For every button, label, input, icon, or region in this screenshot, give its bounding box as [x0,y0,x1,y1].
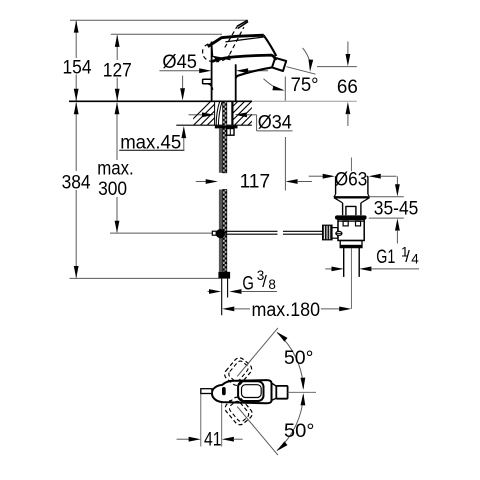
drain tailpipe left [343,248,345,277]
dim 154 arrow down [74,89,79,101]
dim 117 arrow right [206,179,218,184]
dim max45 leader [183,138,185,151]
deck hatching [186,101,300,127]
top view dot upper [229,380,231,382]
mounting hole right edge [231,101,233,125]
dim G3/8 left line [208,291,210,293]
dim 154 arrow up [74,20,79,32]
rod ball joint [216,229,225,238]
dim 384 arrow up [74,102,79,114]
dim G3/8 arrow right [209,289,221,294]
drain rim [334,196,370,198]
top view rod stub [201,389,212,394]
top view centerline [288,391,316,393]
svg-text:Ø34: Ø34 [258,112,292,134]
svg-text:4: 4 [411,251,419,266]
lever left edge [212,42,213,57]
dim G1-1/4 right line [371,268,419,270]
label Ø34 underline [257,130,293,132]
svg-text:127: 127 [103,59,132,81]
raised lever dashed corner [203,44,208,49]
ref line 66 top [317,66,357,68]
drain taper left [335,198,343,203]
dim 117 arrow left [285,179,297,184]
mounting hole left edge [214,101,216,125]
raised lever dashed edge 2 [230,27,244,54]
head right profile [265,37,277,57]
angled spout axis line [287,67,316,75]
raised lever dashed base [203,49,219,62]
dashed handle rotated up [222,356,253,388]
svg-text:300: 300 [98,178,127,200]
top view dot lower [229,400,231,402]
dim Ø45 arrow right [199,68,211,73]
svg-text:384: 384 [62,172,91,194]
raised lever tip line 2 [238,22,248,29]
dim 384 arrow down [74,266,79,278]
drain cyl flare left [334,194,336,197]
ext line spout tip lower [284,137,286,191]
arc arrow lower line [277,441,288,451]
raised lever dashed edge 1 [225,27,237,48]
pop-up knob [203,79,212,84]
aerator square [272,58,286,71]
braided hose upper [223,102,227,173]
dim G3/8 right line [241,291,277,293]
deck bottom line [176,124,252,126]
svg-text:Ø45: Ø45 [162,51,197,73]
smooth hose lower [219,190,222,272]
dim 35-45 vline lower [396,230,398,244]
dim 41 right line [233,438,242,440]
dim 35-45 arrow up [395,218,400,230]
dim G3/8 arrow left [229,289,241,294]
top view handle outer [238,381,263,401]
dim 41 arrow right [189,437,201,442]
dim Ø34 arrow left [235,112,247,117]
dim 66 arrow down [346,54,351,66]
rod lower line b [283,233,323,235]
faucet body right edge [235,64,237,101]
drain cyl flare right [368,194,370,197]
arc arrow upper line [277,332,288,342]
dim max45 arrow up [181,126,186,138]
rod nut collar [332,228,338,239]
dim 384 line lower [75,190,77,278]
drain bottom box [340,241,362,248]
arc arrow 75 lower [264,79,282,90]
drain pivot line [336,232,342,234]
arc arrow upper center [301,378,306,390]
drain pivot ellipse [336,231,342,235]
top view pop-up pill [222,387,226,395]
drain housing tab right [356,221,361,226]
hose curve in hole 2 [218,101,222,125]
dim 127 arrow up [115,35,120,47]
dim max180 arrow right [339,307,351,312]
dim 35-45 arrow down [395,184,400,196]
svg-text:/: / [405,248,410,266]
svg-text:G: G [242,273,254,295]
ext line 41 right [221,403,223,447]
raised lever dashed bottom [222,55,229,61]
connector pipe right [227,279,229,298]
dim Ø63 arrow left [369,174,381,179]
drain top cylinder [336,176,368,194]
dim G1-1/4 arrow right [332,267,344,272]
dim 41 arrow left [222,437,234,442]
drain housing [338,220,364,241]
dim max300 arrow up [115,102,120,114]
deck surface line [69,100,252,102]
dim 35-45 vline upper [396,176,398,185]
svg-text:50°: 50° [284,347,314,369]
dim max300 line upper [116,103,118,160]
svg-text:66: 66 [337,76,358,98]
arc arrow lower center [301,393,306,405]
dim 66 line lower [347,113,349,126]
svg-text:50°: 50° [284,420,315,442]
top view spout neck [272,383,277,400]
swivel line upper [237,328,278,377]
lever top edge [208,35,264,46]
dim Ø45 leader down [182,76,184,90]
dim 66 line upper [347,42,349,56]
label max.45 underline [119,149,184,151]
swivel arc upper [277,333,303,389]
rod horizontal thin [110,232,212,234]
top view aerator [276,386,287,399]
dim Ø63 arrow right [323,174,335,179]
svg-text:G1: G1 [376,246,395,268]
rod upper line a [225,230,278,232]
lever rear tip [213,57,221,63]
rod upper line b [283,230,323,232]
smooth hose upper [219,128,222,172]
dim max180 arrow left [222,307,234,312]
svg-text:117: 117 [240,171,271,193]
dim max180 right line [321,308,340,310]
dim Ø63 right line [380,175,396,177]
ext line spout tip upper [284,77,286,101]
dim 127 arrow down [115,89,120,101]
ref line 35-45 top [369,196,404,198]
drain housing tab left [343,221,348,226]
dim 117 right line [297,181,312,183]
shank washer [215,126,238,129]
dim Ø34 leader step [256,115,258,131]
dim 127 line lower [116,78,118,101]
dim Ø34 right line [246,114,256,116]
deck surface line right [252,100,357,102]
drain neck left [342,203,344,215]
ref line 384 bottom [70,277,219,279]
swivel arc lower [277,395,303,451]
top view handle inner [242,385,262,398]
arc arrow 75 upper [303,48,310,60]
ref line top (lever raised, 154) [70,19,247,21]
svg-text:154: 154 [63,56,92,78]
top view body outline [212,380,272,403]
dim Ø45 arrow left [236,68,248,73]
pop-up knob arc [208,84,213,90]
ref line (lever closed, 127) [111,33,222,35]
faucet body left edge [211,42,213,102]
dim 127 line upper [116,35,118,60]
faucet neck top line [212,55,275,61]
dim max180 left line [234,308,250,310]
dim Ø45 arrow down [180,88,185,100]
svg-text:8: 8 [268,277,276,292]
dim 117 left line [196,181,207,183]
dim max300 arrow down [115,221,120,233]
svg-text:/: / [262,273,267,291]
drain housing inner line [338,220,364,222]
spout underside [236,67,273,78]
drain neck square [346,206,356,215]
rod lower line a [225,233,278,235]
dim G1-1/4 arrow left [359,267,371,272]
connector pipe left [221,279,223,316]
dim 41 left line [177,438,190,440]
mounting nut [227,129,234,136]
dashed handle rotated down [223,395,254,427]
drain centerline top [350,158,352,172]
hose curve in hole 1 [216,101,220,125]
drain taper right [361,198,369,203]
drain flange [335,215,367,219]
ref line 35-45 bottom [369,217,404,219]
svg-text:75°: 75° [291,74,319,96]
braided hose lower [223,190,227,272]
svg-text:41: 41 [204,429,222,451]
hose connector G3/8 [218,272,230,279]
ext line 41 left [200,394,202,447]
dim Ø34 left line [189,114,204,116]
dim max300 line lower [116,197,118,232]
dim 154 line upper [75,21,77,58]
dim 384 line upper [75,103,77,171]
rod collar [212,231,216,235]
lever front edge [225,35,264,42]
lever bottom line [213,56,231,59]
swivel line lower [237,407,278,456]
drain bottom band [340,245,362,248]
dim Ø63 left line [309,175,324,177]
rod knurled nut [323,225,332,240]
dim Ø34 arrow right [202,112,214,117]
svg-text:Ø63: Ø63 [335,169,368,191]
dim 66 arrow up [346,102,351,114]
dim Ø45 line [159,70,200,72]
svg-text:max.: max. [97,158,134,180]
dim 154 line lower [75,75,77,101]
drain tailpipe centerline [350,248,352,309]
raised lever tip line 1 [237,20,248,26]
drain tailpipe right [358,248,360,277]
drain neck right [360,203,362,215]
dim G1-1/4 left line [325,268,332,270]
label Ø63 [337,172,367,187]
svg-text:35-45: 35-45 [374,198,419,220]
svg-text:max.180: max.180 [252,299,321,321]
dim Ø45 right line [248,70,268,72]
